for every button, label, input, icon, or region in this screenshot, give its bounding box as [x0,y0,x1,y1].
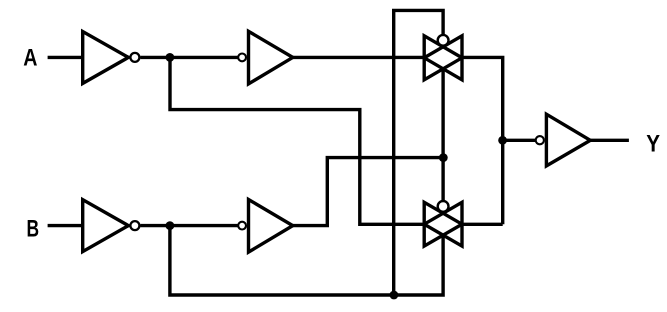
svg-text:A: A [23,44,37,71]
svg-text:B: B [27,215,40,242]
svg-text:Y: Y [646,131,660,158]
